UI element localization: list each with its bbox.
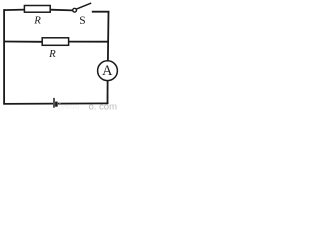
ammeter A1: [98, 61, 118, 81]
wire: bottom left segment: [3, 103, 53, 105]
wire: left vertical: [3, 9, 5, 104]
svg-text:A: A: [102, 63, 113, 79]
wire: right vertical upper: [107, 11, 110, 61]
wire: right vertical lower: [107, 81, 109, 105]
wire: switch to top-right corner: [92, 11, 110, 13]
wire: top left segment: [3, 9, 24, 12]
svg-text:R: R: [48, 48, 56, 60]
switch S lever: [76, 3, 91, 9]
wire: resistor R1 to switch: [50, 9, 72, 12]
resistor R1: [24, 6, 50, 13]
svg-text:R: R: [33, 14, 41, 26]
svg-text:S: S: [79, 15, 85, 27]
wire: bottom right segment: [58, 102, 108, 104]
battery negative plate: [55, 102, 58, 107]
svg-text:o. com: o. com: [89, 101, 118, 110]
wire: middle row left: [4, 41, 43, 43]
battery positive plate: [53, 98, 55, 108]
svg-text:jyeoo: jyeoo: [58, 101, 80, 110]
wire: middle row right: [68, 41, 108, 43]
switch S pivot: [73, 8, 77, 12]
resistor R2: [42, 38, 68, 46]
